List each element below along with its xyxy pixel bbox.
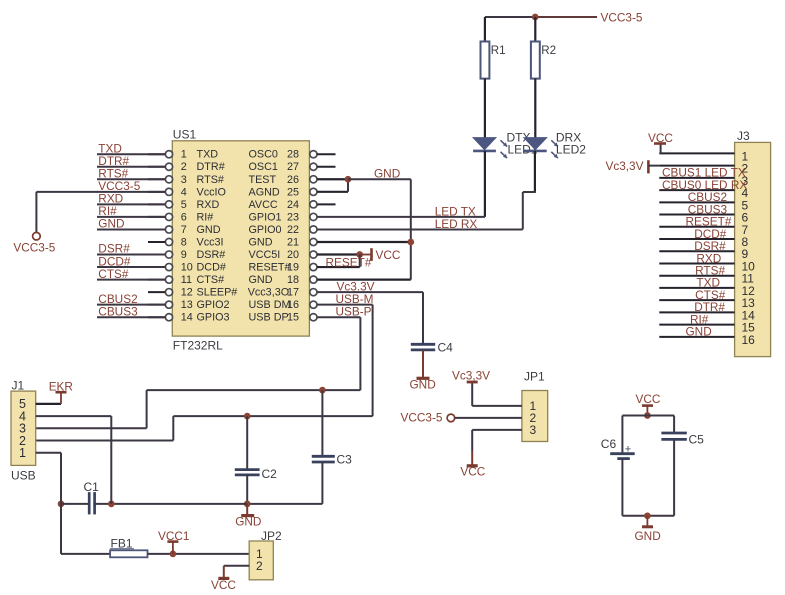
svg-text:C4: C4 (438, 341, 454, 355)
svg-text:C2: C2 (262, 467, 278, 481)
svg-text:RXD: RXD (197, 199, 220, 211)
svg-text:VCC3-5: VCC3-5 (13, 241, 55, 255)
svg-text:3: 3 (530, 423, 537, 437)
svg-text:JP2: JP2 (261, 529, 282, 543)
svg-text:28: 28 (287, 149, 299, 161)
svg-text:VCC1: VCC1 (158, 529, 189, 543)
svg-text:USB: USB (11, 469, 36, 483)
svg-text:US1: US1 (173, 128, 197, 142)
svg-text:VccIO: VccIO (197, 186, 226, 198)
svg-text:GND: GND (235, 514, 261, 528)
svg-text:GND: GND (410, 377, 436, 391)
svg-text:CBUS3: CBUS3 (98, 304, 138, 318)
svg-text:R1: R1 (491, 44, 506, 57)
svg-text:VCC5I: VCC5I (249, 249, 281, 261)
svg-text:VCC3-5: VCC3-5 (401, 411, 443, 425)
svg-text:VCC3-5: VCC3-5 (601, 10, 643, 24)
svg-text:25: 25 (287, 186, 299, 198)
svg-text:Vcc3I: Vcc3I (197, 236, 224, 248)
svg-text:GND: GND (197, 224, 221, 236)
svg-text:DSR#: DSR# (197, 249, 226, 261)
svg-text:C3: C3 (337, 453, 353, 467)
svg-text:DCD#: DCD# (197, 262, 226, 274)
svg-text:11: 11 (181, 274, 192, 286)
svg-text:J1: J1 (12, 379, 25, 393)
svg-text:23: 23 (287, 211, 299, 223)
svg-text:8: 8 (181, 236, 187, 248)
svg-text:R2: R2 (541, 44, 556, 57)
svg-text:C6: C6 (601, 437, 617, 451)
svg-text:CTS#: CTS# (197, 274, 225, 286)
svg-text:2: 2 (256, 559, 263, 573)
svg-text:22: 22 (287, 224, 299, 236)
svg-text:GND: GND (374, 166, 400, 180)
svg-text:VCC: VCC (376, 248, 401, 262)
svg-text:1: 1 (19, 446, 26, 460)
svg-text:+: + (625, 443, 631, 455)
svg-text:GND: GND (635, 529, 661, 543)
svg-text:1: 1 (181, 149, 187, 161)
svg-text:GND: GND (686, 325, 712, 339)
svg-text:EKR: EKR (49, 380, 73, 394)
svg-text:3: 3 (181, 174, 187, 186)
svg-text:GND: GND (98, 217, 124, 231)
svg-text:VCC: VCC (460, 465, 485, 479)
svg-text:5: 5 (181, 199, 187, 211)
svg-text:16: 16 (742, 333, 756, 347)
svg-text:20: 20 (287, 249, 299, 261)
svg-text:6: 6 (181, 211, 187, 223)
svg-text:14: 14 (181, 312, 193, 324)
svg-text:OSC1: OSC1 (249, 161, 278, 173)
svg-text:AGND: AGND (249, 186, 280, 198)
svg-text:27: 27 (287, 161, 299, 173)
svg-text:TXD: TXD (197, 149, 219, 161)
svg-text:7: 7 (181, 224, 187, 236)
svg-text:LED2: LED2 (556, 142, 586, 156)
svg-text:GPIO3: GPIO3 (197, 312, 230, 324)
svg-text:JP1: JP1 (524, 370, 545, 384)
svg-text:GND: GND (249, 274, 273, 286)
svg-text:AVCC: AVCC (249, 199, 278, 211)
svg-text:VCC: VCC (636, 392, 661, 406)
svg-text:LED RX: LED RX (435, 217, 478, 231)
svg-text:21: 21 (287, 236, 299, 248)
svg-text:FT232RL: FT232RL (173, 339, 223, 353)
svg-text:2: 2 (181, 161, 187, 173)
svg-text:J3: J3 (737, 129, 750, 143)
svg-text:RTS#: RTS# (197, 174, 224, 186)
svg-text:USB DM: USB DM (249, 299, 291, 311)
svg-text:Vc3,3V: Vc3,3V (605, 159, 643, 173)
svg-text:VCC: VCC (211, 578, 236, 592)
svg-text:24: 24 (287, 199, 299, 211)
svg-text:VCC: VCC (648, 131, 673, 145)
svg-text:18: 18 (287, 274, 299, 286)
svg-text:C1: C1 (84, 480, 100, 494)
svg-text:Vc3,3V: Vc3,3V (452, 369, 490, 383)
svg-text:TEST: TEST (249, 174, 277, 186)
svg-text:USB DP: USB DP (249, 312, 289, 324)
svg-text:RESET#: RESET# (249, 262, 291, 274)
svg-text:15: 15 (287, 312, 299, 324)
svg-text:SLEEP#: SLEEP# (197, 287, 238, 299)
svg-text:26: 26 (287, 174, 299, 186)
svg-text:Vcc3,3O: Vcc3,3O (248, 287, 289, 299)
svg-text:GND: GND (249, 236, 273, 248)
svg-text:C5: C5 (689, 432, 705, 446)
svg-text:RI#: RI# (197, 211, 214, 223)
svg-text:OSC0: OSC0 (249, 149, 278, 161)
svg-text:GPIO2: GPIO2 (197, 299, 230, 311)
svg-text:12: 12 (181, 287, 193, 299)
svg-text:GPIO0: GPIO0 (249, 224, 282, 236)
svg-text:USB-P: USB-P (336, 304, 372, 318)
svg-text:4: 4 (181, 186, 187, 198)
svg-text:13: 13 (181, 299, 193, 311)
svg-text:DTR#: DTR# (197, 161, 225, 173)
svg-text:CTS#: CTS# (98, 267, 129, 281)
svg-text:9: 9 (181, 249, 187, 261)
svg-text:10: 10 (181, 262, 193, 274)
svg-text:GPIO1: GPIO1 (249, 211, 282, 223)
svg-text:RESET#: RESET# (326, 255, 372, 269)
